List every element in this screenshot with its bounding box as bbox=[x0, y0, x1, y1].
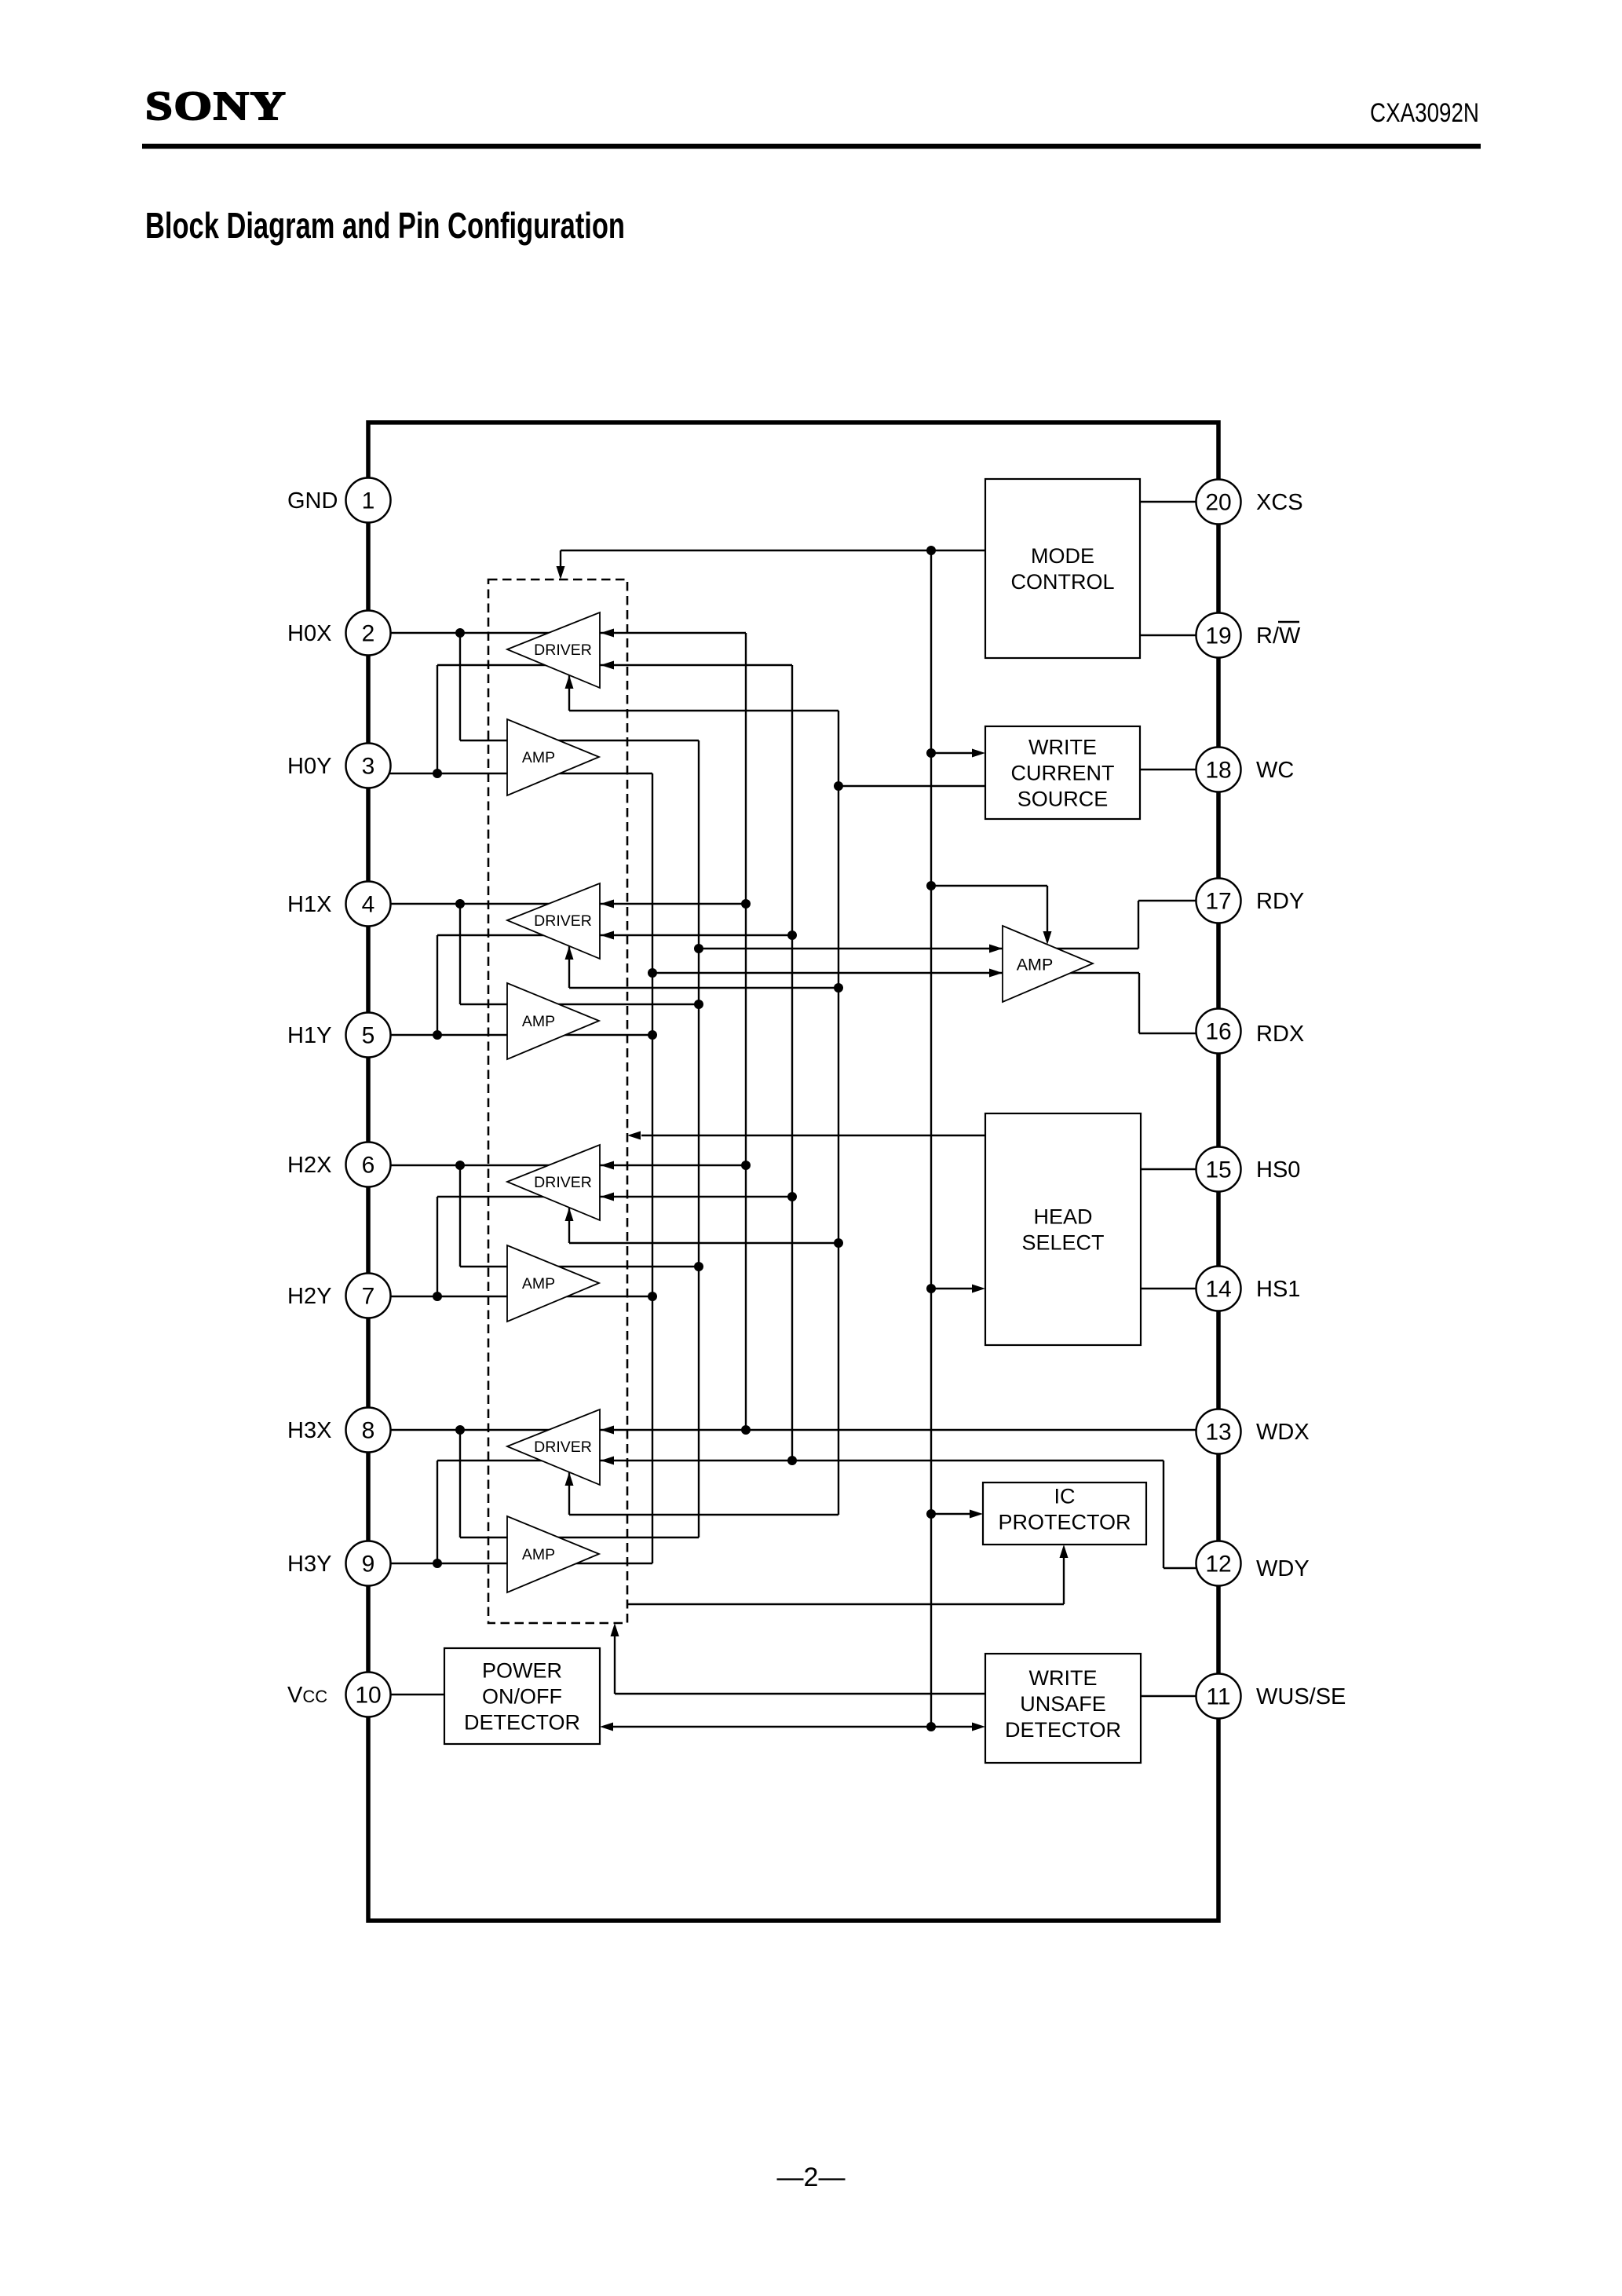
block IC PROTECTOR bbox=[983, 1483, 1146, 1545]
driver U2 (write driver, channel 1) bbox=[507, 883, 600, 959]
pin 20 XCS bbox=[1196, 480, 1303, 525]
part number CXA3092N bbox=[1370, 98, 1479, 128]
svg-text:14: 14 bbox=[1205, 1277, 1231, 1303]
arrow write current into driver 2 bbox=[565, 946, 574, 960]
svg-text:6: 6 bbox=[362, 1153, 375, 1179]
vertical mode-control bus x=1186 bbox=[930, 550, 932, 1727]
svg-text:H2X: H2X bbox=[287, 1153, 331, 1178]
svg-text:ON/OFF: ON/OFF bbox=[482, 1685, 562, 1709]
svg-text:DRIVER: DRIVER bbox=[534, 642, 592, 659]
svg-text:H2Y: H2Y bbox=[287, 1284, 331, 1309]
wire mode bus to HEAD SELECT / pin14 HS1 bbox=[931, 1285, 1210, 1293]
svg-text:H0Y: H0Y bbox=[287, 754, 331, 779]
svg-text:19: 19 bbox=[1205, 623, 1231, 649]
svg-text:HS1: HS1 bbox=[1256, 1277, 1300, 1302]
svg-text:H0X: H0X bbox=[287, 621, 331, 646]
wire driver 3 write-current feed bbox=[569, 1208, 838, 1243]
pin 8 H3X bbox=[287, 1408, 391, 1453]
svg-text:5: 5 bbox=[362, 1023, 375, 1049]
svg-text:AMP: AMP bbox=[1017, 956, 1054, 974]
arrow write current into driver 4 bbox=[565, 1472, 574, 1486]
wire amp 2 upper input rail bbox=[460, 904, 699, 1004]
svg-text:AMP: AMP bbox=[522, 1275, 555, 1292]
svg-text:7: 7 bbox=[362, 1284, 375, 1310]
svg-text:WRITE: WRITE bbox=[1028, 736, 1097, 759]
block WRITE UNSAFE DETECTOR bbox=[985, 1654, 1141, 1763]
bus: write current source to drivers (x=1068) bbox=[838, 711, 839, 1515]
arrow WDY into driver 2 bbox=[601, 931, 614, 940]
svg-text:DRIVER: DRIVER bbox=[534, 912, 592, 930]
pin 12 WDY bbox=[1196, 1541, 1310, 1586]
wire H2X rail (pin to WDX bus) bbox=[377, 1164, 746, 1166]
svg-text:DETECTOR: DETECTOR bbox=[464, 1711, 580, 1735]
wire H0X rail (pin to WDX bus) bbox=[377, 632, 746, 634]
pin 19 R/W bbox=[1196, 613, 1302, 658]
svg-text:CONTROL: CONTROL bbox=[1010, 570, 1114, 594]
wire H0Y rail (pin to read bus) bbox=[377, 773, 652, 774]
svg-text:HS0: HS0 bbox=[1256, 1157, 1300, 1183]
wire driver 3 second input rail (WDY) bbox=[437, 1197, 792, 1296]
svg-text:H3X: H3X bbox=[287, 1418, 331, 1443]
pin 11 WUS/SE bbox=[1196, 1674, 1346, 1719]
SONY logo bbox=[145, 84, 287, 129]
pin 4 H1X bbox=[287, 882, 391, 927]
svg-text:DRIVER: DRIVER bbox=[534, 1439, 592, 1456]
wire driver block to IC PROTECTOR (bottom entry) bbox=[627, 1545, 1069, 1604]
svg-text:10: 10 bbox=[355, 1683, 381, 1709]
amp A3 (read amp, channel 2) bbox=[507, 1245, 599, 1322]
amp A2 (read amp, channel 1) bbox=[507, 983, 599, 1059]
wire H3Y rail (pin to read bus) bbox=[377, 1563, 652, 1564]
wire H1X rail (pin to WDX bus) bbox=[377, 903, 746, 905]
bus: WDY to all drivers (x=1009) bbox=[791, 665, 793, 1461]
svg-text:9: 9 bbox=[362, 1552, 375, 1578]
pin 10 Vcc bbox=[287, 1673, 391, 1717]
svg-text:H3Y: H3Y bbox=[287, 1552, 331, 1577]
arrow WDY into driver 4 bbox=[601, 1457, 614, 1465]
arrow WDY into driver 1 bbox=[601, 661, 614, 670]
svg-text:WDY: WDY bbox=[1256, 1556, 1310, 1581]
block POWER ON/OFF DETECTOR bbox=[444, 1648, 600, 1744]
wire driver 2 second input rail (WDY) bbox=[437, 935, 792, 1035]
svg-text:17: 17 bbox=[1205, 889, 1231, 915]
wire driver 2 write-current feed bbox=[569, 946, 838, 988]
bus: amp upper outputs to read amp (x=890) bbox=[698, 740, 700, 1537]
svg-text:PROTECTOR: PROTECTOR bbox=[998, 1511, 1131, 1534]
svg-text:H1Y: H1Y bbox=[287, 1023, 331, 1048]
svg-text:GND: GND bbox=[287, 488, 338, 514]
svg-text:WDX: WDX bbox=[1256, 1420, 1310, 1445]
svg-text:DRIVER: DRIVER bbox=[534, 1174, 592, 1191]
pin 9 H3Y bbox=[287, 1541, 391, 1586]
page number bbox=[777, 2163, 846, 2192]
arrow WDX into driver 1 bbox=[601, 629, 614, 638]
header rule bbox=[142, 144, 1481, 149]
svg-text:HEAD: HEAD bbox=[1033, 1205, 1092, 1229]
svg-text:SELECT: SELECT bbox=[1021, 1231, 1104, 1255]
wire H2Y rail (pin to read bus) bbox=[377, 1296, 652, 1297]
pin 1 GND bbox=[287, 478, 391, 523]
pin 14 HS1 bbox=[1196, 1267, 1301, 1311]
svg-text:—2—: —2— bbox=[777, 2163, 846, 2192]
wire driver 1 write-current feed bbox=[569, 675, 838, 711]
svg-text:CURRENT: CURRENT bbox=[1011, 762, 1115, 785]
svg-text:AMP: AMP bbox=[522, 749, 555, 766]
svg-text:SONY: SONY bbox=[145, 84, 287, 129]
svg-text:RDY: RDY bbox=[1256, 889, 1304, 914]
arrow WDX into driver 2 bbox=[601, 900, 614, 909]
driver U3 (write driver, channel 2) bbox=[507, 1145, 600, 1220]
svg-text:1: 1 bbox=[362, 488, 375, 514]
svg-text:16: 16 bbox=[1205, 1019, 1231, 1045]
svg-text:12: 12 bbox=[1205, 1552, 1231, 1578]
wire driver 4 write-current feed bbox=[569, 1472, 838, 1515]
wire amp 1 upper input rail bbox=[460, 633, 699, 740]
wire H1Y rail (pin to read bus) bbox=[377, 1034, 652, 1036]
svg-text:UNSAFE: UNSAFE bbox=[1020, 1692, 1106, 1716]
pin 3 H0Y bbox=[287, 744, 391, 788]
wire pin12 WDY step to driver 4 second input bbox=[1164, 1461, 1210, 1568]
wire MODE CONTROL output to dashed driver block (node at x=1186) bbox=[557, 550, 986, 579]
svg-text:11: 11 bbox=[1206, 1684, 1230, 1710]
dashed head-driver block boundary bbox=[488, 579, 627, 1623]
svg-text:20: 20 bbox=[1205, 490, 1231, 516]
wire mode bus to WRITE CURRENT SOURCE bbox=[931, 749, 985, 758]
svg-text:DETECTOR: DETECTOR bbox=[1005, 1718, 1121, 1742]
bus: amp lower outputs to read amp (x=831) bbox=[652, 773, 653, 1563]
svg-text:SOURCE: SOURCE bbox=[1017, 788, 1109, 811]
amp A4 (read amp, channel 3) bbox=[507, 1516, 599, 1592]
arrow write current into driver 3 bbox=[565, 1208, 574, 1221]
block WRITE CURRENT SOURCE bbox=[985, 726, 1140, 819]
wire driver 4 second input rail (WDY) bbox=[437, 1461, 1164, 1563]
amp A1 (read amp, channel 0) bbox=[507, 719, 599, 795]
svg-text:CXA3092N: CXA3092N bbox=[1370, 98, 1479, 128]
svg-text:8: 8 bbox=[362, 1418, 375, 1444]
pin 13 WDX bbox=[1196, 1409, 1310, 1454]
svg-text:3: 3 bbox=[362, 754, 375, 780]
wire pin19 R/W to MODE CONTROL bbox=[1140, 634, 1210, 636]
wire H3X rail (pin to WDX bus) bbox=[377, 1429, 1196, 1431]
wire POWER ON/OFF DETECTOR to WRITE UNSAFE DETECTOR (double arrow) bbox=[600, 1723, 985, 1731]
svg-text:Block Diagram and Pin Configur: Block Diagram and Pin Configuration bbox=[145, 205, 625, 246]
bus: WDX to all drivers (x=950) bbox=[745, 633, 747, 1430]
wire pin15 HS0 to HEAD SELECT bbox=[1141, 1168, 1210, 1170]
svg-text:MODE: MODE bbox=[1031, 544, 1094, 568]
pin 16 RDX bbox=[1196, 1009, 1305, 1054]
block HEAD SELECT bbox=[985, 1113, 1141, 1345]
arrow write current into driver 1 bbox=[565, 675, 574, 689]
pin 5 H1Y bbox=[287, 1013, 391, 1058]
wire pin18 WC to WRITE CURRENT SOURCE bbox=[1140, 769, 1210, 770]
svg-text:AMP: AMP bbox=[522, 1013, 555, 1030]
wire driver block to WRITE UNSAFE DETECTOR bbox=[611, 1623, 986, 1694]
svg-text:AMP: AMP bbox=[522, 1546, 555, 1563]
svg-text:4: 4 bbox=[362, 892, 375, 918]
pin 6 H2X bbox=[287, 1143, 391, 1187]
page title bbox=[145, 205, 625, 246]
wire pin11 WUS/SE to WRITE UNSAFE DETECTOR bbox=[1141, 1695, 1210, 1697]
wire read amp lower input / RDX output bbox=[652, 969, 1210, 1034]
junction dots bbox=[433, 546, 936, 1731]
block MODE CONTROL bbox=[985, 479, 1140, 658]
svg-text:VCC: VCC bbox=[287, 1683, 327, 1708]
pin 2 H0X bbox=[287, 611, 391, 656]
wire mode bus to IC PROTECTOR bbox=[931, 1510, 983, 1519]
wire HEAD SELECT to driver block bbox=[627, 1132, 985, 1140]
svg-text:H1X: H1X bbox=[287, 892, 331, 917]
wire amp 4 upper input rail bbox=[460, 1430, 699, 1537]
arrow WDX into driver 3 bbox=[601, 1161, 614, 1170]
svg-text:WUS/SE: WUS/SE bbox=[1256, 1684, 1346, 1709]
pin 15 HS0 bbox=[1196, 1147, 1301, 1192]
svg-text:IC: IC bbox=[1054, 1485, 1076, 1508]
svg-text:XCS: XCS bbox=[1256, 490, 1303, 515]
driver U4 (write driver, channel 3) bbox=[507, 1409, 600, 1485]
svg-text:18: 18 bbox=[1205, 758, 1231, 784]
outer IC boundary box bbox=[368, 422, 1218, 1921]
wire pin20 XCS to MODE CONTROL bbox=[1140, 501, 1210, 503]
svg-text:2: 2 bbox=[362, 621, 375, 647]
svg-text:POWER: POWER bbox=[482, 1659, 562, 1683]
pin 18 WC bbox=[1196, 748, 1295, 792]
wire read amp upper input / RDY output bbox=[699, 901, 1210, 953]
svg-text:WC: WC bbox=[1256, 758, 1294, 783]
svg-text:15: 15 bbox=[1205, 1157, 1231, 1183]
arrow WDY into driver 3 bbox=[601, 1193, 614, 1201]
wire write-current bus to WRITE CURRENT SOURCE bbox=[838, 785, 985, 787]
svg-text:R/W: R/W bbox=[1256, 623, 1301, 649]
wire driver 1 second input rail (WDY) bbox=[437, 665, 792, 773]
read output amp bbox=[1003, 926, 1093, 1002]
pin 17 RDY bbox=[1196, 879, 1305, 923]
svg-text:RDX: RDX bbox=[1256, 1022, 1304, 1047]
wire amp 3 upper input rail bbox=[460, 1165, 699, 1267]
svg-text:13: 13 bbox=[1205, 1420, 1231, 1446]
arrow WDX into driver 4 bbox=[601, 1426, 614, 1435]
wire pin10 Vcc to POWER ON/OFF DETECTOR bbox=[377, 1694, 444, 1695]
pin 7 H2Y bbox=[287, 1274, 391, 1318]
svg-text:WRITE: WRITE bbox=[1029, 1666, 1098, 1690]
wire mode bus to read amp enable bbox=[931, 886, 1052, 945]
driver U1 (write driver, channel 0) bbox=[507, 612, 600, 688]
